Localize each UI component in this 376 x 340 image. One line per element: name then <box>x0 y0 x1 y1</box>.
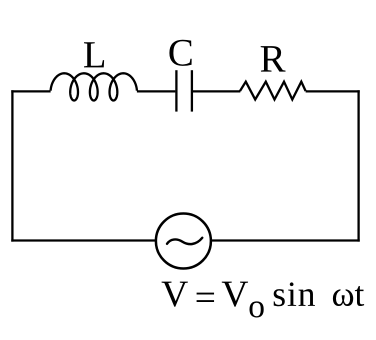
wire bottom-left segment <box>11 239 156 241</box>
inductor L <box>51 73 137 100</box>
AC source circle <box>156 214 211 269</box>
label C <box>169 40 191 66</box>
wire right vertical <box>357 90 359 241</box>
wire inductor to capacitor <box>137 90 176 92</box>
formula V amplitude <box>222 282 248 307</box>
formula equals sign <box>197 293 214 302</box>
resistor R <box>240 82 306 100</box>
AC source sine symbol <box>167 238 202 244</box>
capacitor C right plate <box>191 70 193 111</box>
capacitor C left plate <box>175 70 177 111</box>
wire resistor to top-right corner <box>306 90 360 92</box>
wire top-left segment <box>11 90 50 92</box>
wire capacitor to resistor <box>193 90 240 92</box>
wire bottom-right segment <box>211 239 360 241</box>
wire left vertical <box>11 90 13 241</box>
label R <box>261 46 286 72</box>
formula sin <box>274 282 315 306</box>
formula subscript o <box>250 301 264 317</box>
label L <box>84 42 104 67</box>
formula V <box>162 282 188 307</box>
formula omega t <box>333 286 364 306</box>
